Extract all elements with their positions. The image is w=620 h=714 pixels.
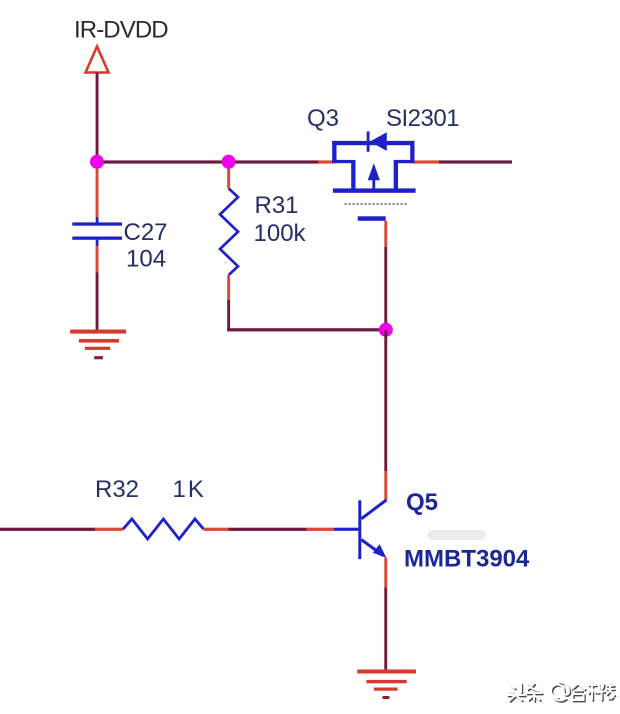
- svg-text:SI2301: SI2301: [386, 105, 459, 132]
- wire Q5 emitter pin red: [384, 558, 387, 588]
- svg-text:Q3: Q3: [307, 105, 339, 132]
- wire emitter to ground maroon: [384, 588, 387, 671]
- svg-text:Q5: Q5: [406, 489, 438, 516]
- junction node gate-collector: [379, 323, 393, 337]
- wire Q5 base pin red: [307, 528, 334, 531]
- resistor R32: [123, 519, 204, 539]
- junction node at rail R31: [222, 155, 236, 169]
- wire C27 to ground maroon: [96, 273, 99, 331]
- svg-text:104: 104: [126, 246, 166, 273]
- transistor Q5: [334, 500, 387, 559]
- wire base maroon left: [0, 528, 95, 531]
- mosfet Q3 channel dashed line: [345, 203, 408, 205]
- wire R31 down maroon: [227, 300, 230, 331]
- wire Q3 gate pin red: [384, 221, 387, 247]
- wire R31 bottom pin red: [227, 275, 230, 300]
- wire gate down maroon: [384, 247, 387, 330]
- mosfet Q3 body diode: [367, 131, 387, 151]
- ground under C27: [70, 330, 126, 360]
- wire Q3 source pin stub: [318, 160, 333, 163]
- svg-text:R32: R32: [95, 476, 139, 503]
- wire R32 right pin red: [204, 528, 229, 531]
- mosfet Q3 body: [332, 141, 415, 193]
- junction node at power rail left: [90, 155, 104, 169]
- wire power stem: [96, 73, 99, 162]
- wire top rail right maroon: [439, 160, 512, 163]
- svg-text:C27: C27: [124, 219, 168, 246]
- ground under Q5: [357, 670, 416, 700]
- wire C27 bottom pin red: [96, 246, 99, 272]
- resistor R31: [220, 189, 238, 276]
- mosfet Q3 substrate arrow: [368, 163, 380, 190]
- wire Q5 collector pin red: [384, 471, 387, 501]
- svg-text:MMBT3904: MMBT3904: [404, 546, 530, 573]
- wire base maroon mid: [229, 528, 307, 531]
- svg-text:100k: 100k: [254, 220, 307, 247]
- wire R32 left pin red: [95, 528, 123, 531]
- wire C27 top pin red: [96, 163, 99, 218]
- capacitor C27: [72, 217, 122, 246]
- mosfet Q3 gate bar: [358, 216, 386, 221]
- wire R31 to junction horizontal: [227, 328, 386, 331]
- wire junction to collector maroon: [384, 330, 387, 471]
- svg-text:1K: 1K: [173, 476, 206, 503]
- watermark 头条@合科泰: [508, 682, 616, 702]
- watermark smudge: [428, 530, 487, 540]
- svg-text:IR-DVDD: IR-DVDD: [74, 17, 168, 44]
- wire R31 top pin red: [227, 163, 230, 189]
- wire top rail maroon: [96, 160, 321, 163]
- svg-text:R31: R31: [255, 192, 299, 219]
- power symbol IR-DVDD: [86, 47, 109, 73]
- wire Q3 drain pin stub: [414, 160, 439, 163]
